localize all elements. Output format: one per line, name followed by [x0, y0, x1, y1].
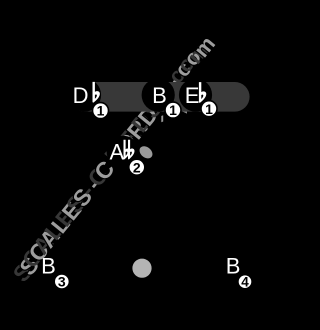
finger badge 1 (Db)	[93, 103, 109, 119]
note label Abb	[110, 140, 135, 165]
watermark SCALES-CHORDS.com	[8, 32, 221, 287]
svg-text:1: 1	[205, 101, 213, 117]
barre bar fret1	[70, 82, 250, 112]
note dot Abb	[107, 136, 140, 169]
watermark fragment F2	[137, 144, 155, 161]
finger badge 3 (B open)	[54, 274, 69, 290]
note dot Db	[68, 78, 101, 111]
fret marker dot	[132, 259, 151, 278]
svg-text:E: E	[185, 83, 200, 108]
note label Db	[73, 82, 100, 108]
watermark fragment F3	[161, 115, 163, 122]
svg-text:3: 3	[58, 274, 66, 290]
note label Eb	[185, 82, 207, 108]
svg-text:1: 1	[169, 102, 177, 118]
finger badge 2 (Abb)	[129, 159, 145, 175]
finger badge 1 (Eb)	[201, 101, 217, 117]
watermark fragment F4	[182, 110, 187, 114]
note dot Eb	[179, 78, 212, 111]
note dot B (string 4)	[142, 78, 175, 111]
svg-text:B: B	[41, 253, 56, 278]
svg-text:B: B	[226, 253, 241, 278]
finger badge 1 (B)	[165, 102, 181, 118]
finger badge 4 (B string6)	[238, 275, 252, 290]
svg-text:1: 1	[97, 103, 105, 119]
svg-text:2: 2	[133, 159, 141, 175]
svg-text:D: D	[73, 83, 89, 108]
svg-text:4: 4	[241, 275, 249, 290]
svg-text:B: B	[152, 83, 167, 108]
svg-text:A: A	[110, 140, 125, 165]
